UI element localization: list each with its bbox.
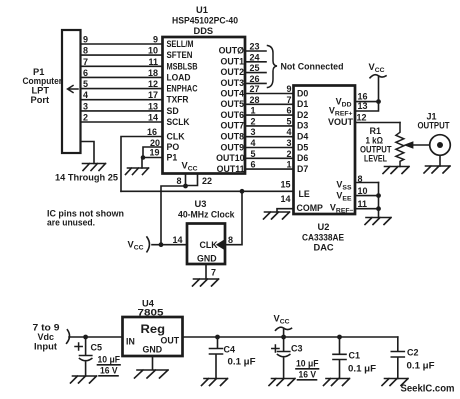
svg-text:12: 12 bbox=[148, 79, 158, 89]
svg-text:LPT: LPT bbox=[32, 86, 50, 96]
clock bus wire bbox=[121, 190, 294, 192]
svg-text:HSP45102PC-40: HSP45102PC-40 bbox=[172, 16, 238, 26]
svg-text:OUT7: OUT7 bbox=[221, 121, 245, 131]
svg-text:7 to 9: 7 to 9 bbox=[33, 323, 60, 333]
svg-text:6: 6 bbox=[83, 68, 88, 78]
svg-text:GND: GND bbox=[197, 254, 217, 264]
U3 pin names bbox=[197, 240, 218, 264]
svg-text:0.1 μF: 0.1 μF bbox=[228, 357, 257, 367]
svg-text:are unused.: are unused. bbox=[47, 218, 95, 228]
svg-text:Not Connected: Not Connected bbox=[281, 62, 344, 72]
wire P1 pin6 to U1 pin18 bbox=[81, 76, 163, 78]
svg-text:OUT2: OUT2 bbox=[221, 67, 245, 77]
svg-text:16: 16 bbox=[147, 127, 157, 137]
svg-text:11: 11 bbox=[358, 199, 368, 209]
connector P1 bbox=[62, 30, 81, 153]
wire U1 pin25 OUT2 nc bbox=[245, 72, 266, 74]
svg-text:5: 5 bbox=[83, 79, 88, 89]
svg-text:OUT8: OUT8 bbox=[221, 132, 245, 142]
ground C3 bbox=[269, 379, 295, 386]
svg-text:DDS: DDS bbox=[194, 26, 214, 36]
svg-text:GND: GND bbox=[143, 345, 163, 355]
U1 left pin names bbox=[167, 39, 199, 163]
svg-text:3: 3 bbox=[83, 101, 88, 111]
bracket not connected bbox=[268, 46, 278, 88]
wire U3 clock out riser bbox=[225, 191, 242, 244]
svg-text:OUT1: OUT1 bbox=[221, 56, 245, 66]
svg-text:OUT5: OUT5 bbox=[221, 99, 245, 109]
svg-text:27: 27 bbox=[250, 84, 260, 94]
connector J1 bbox=[430, 135, 451, 156]
wire VCC net U1 to U3 bbox=[161, 186, 186, 245]
wire VREF+ pin13 bbox=[355, 102, 379, 111]
ground U3 bbox=[193, 279, 219, 286]
note IC pins unused bbox=[47, 209, 124, 228]
ground C1 bbox=[324, 379, 350, 386]
svg-text:D2: D2 bbox=[297, 110, 308, 120]
svg-text:1: 1 bbox=[251, 106, 256, 116]
wire U1 pin8 stub bbox=[185, 174, 187, 187]
svg-text:7: 7 bbox=[286, 95, 291, 105]
svg-text:16 V: 16 V bbox=[299, 370, 317, 380]
svg-text:SCLK: SCLK bbox=[167, 117, 191, 127]
wire VSS pin8 bbox=[355, 182, 379, 184]
label U4 title bbox=[138, 299, 164, 318]
pin numbers U2 left 9-1 bbox=[286, 84, 291, 170]
svg-text:CA3338AE: CA3338AE bbox=[302, 233, 344, 243]
regulator U4 7805 bbox=[123, 317, 183, 356]
svg-text:13: 13 bbox=[358, 101, 368, 111]
svg-text:9: 9 bbox=[286, 84, 291, 94]
svg-text:26: 26 bbox=[250, 74, 260, 84]
ground P1 shell bbox=[83, 164, 106, 171]
svg-text:11: 11 bbox=[148, 57, 158, 67]
svg-text:2: 2 bbox=[286, 149, 291, 159]
svg-text:OUT6: OUT6 bbox=[221, 110, 245, 120]
svg-text:SD: SD bbox=[167, 106, 179, 116]
resistor R1 bbox=[396, 123, 404, 167]
DAC U2 CA3338AE bbox=[294, 86, 356, 215]
svg-text:R1: R1 bbox=[370, 126, 382, 136]
svg-text:U2: U2 bbox=[318, 222, 330, 232]
svg-text:14 Through 25: 14 Through 25 bbox=[55, 173, 118, 183]
svg-text:10: 10 bbox=[148, 46, 158, 56]
svg-text:D1: D1 bbox=[297, 99, 308, 109]
ground C4 bbox=[202, 379, 228, 386]
svg-text:OUT10: OUT10 bbox=[216, 153, 244, 163]
svg-text:OUT11: OUT11 bbox=[217, 164, 245, 174]
svg-text:28: 28 bbox=[250, 95, 260, 105]
power VCC tap at U3 bbox=[128, 237, 150, 252]
svg-text:U3: U3 bbox=[195, 199, 207, 209]
svg-text:OUT9: OUT9 bbox=[221, 142, 245, 152]
svg-text:14: 14 bbox=[280, 194, 290, 204]
svg-text:16 V: 16 V bbox=[100, 366, 118, 376]
svg-text:IN: IN bbox=[126, 337, 135, 347]
ground U4 bbox=[135, 370, 169, 378]
wire COMP to ground bbox=[277, 209, 294, 212]
svg-text:SFTEN: SFTEN bbox=[167, 50, 193, 60]
label C2 value bbox=[407, 348, 436, 371]
wire VCC to U3 pin14 bbox=[152, 244, 187, 246]
label J1 bbox=[418, 112, 450, 131]
junction pins 19-20 bbox=[141, 155, 146, 160]
svg-text:4: 4 bbox=[83, 90, 88, 100]
svg-text:LE: LE bbox=[299, 189, 310, 199]
svg-text:3: 3 bbox=[286, 138, 291, 148]
wire U1 pin26 OUT3 nc bbox=[245, 82, 266, 84]
capacitor C4 bbox=[210, 337, 223, 379]
svg-text:VOUT: VOUT bbox=[328, 117, 354, 127]
wire OUT10 to D6 bbox=[245, 157, 294, 159]
svg-text:OUTPUT: OUTPUT bbox=[418, 121, 450, 131]
underline C3 10uF bbox=[296, 368, 319, 370]
junction VCC at U3 bbox=[159, 242, 164, 247]
svg-text:22: 22 bbox=[202, 176, 212, 186]
IC U1 HSP45102PC-40 bbox=[163, 37, 246, 174]
svg-text:2: 2 bbox=[251, 116, 256, 126]
wire OUT7 to D3 bbox=[245, 125, 294, 127]
label U3 title bbox=[178, 199, 235, 220]
ground R1 bbox=[383, 167, 409, 174]
svg-text:8: 8 bbox=[176, 176, 181, 186]
label U2 title bbox=[302, 222, 344, 253]
wire P1 pin7 to U1 pin11 bbox=[81, 65, 163, 67]
junction VREF- bbox=[376, 206, 381, 211]
wire U2 supply riser to ground bbox=[378, 183, 380, 218]
wire VEE pin10 bbox=[355, 195, 379, 197]
wire U1 pin24 OUT1 nc bbox=[245, 61, 266, 63]
svg-text:3: 3 bbox=[251, 127, 256, 137]
wire J1 to ground bbox=[439, 155, 441, 166]
svg-text:Computer: Computer bbox=[23, 76, 63, 86]
svg-text:C1: C1 bbox=[349, 351, 361, 361]
U2 left pin names D0-D7 bbox=[297, 88, 324, 213]
svg-text:Vdc: Vdc bbox=[38, 332, 55, 342]
svg-text:OUT3: OUT3 bbox=[221, 78, 245, 88]
wire U1 pin23 OUT0 nc bbox=[245, 50, 266, 52]
svg-text:14: 14 bbox=[172, 235, 182, 245]
wire P1 pin4 to U1 pin17 bbox=[81, 99, 163, 101]
U2 right pin names bbox=[328, 97, 354, 215]
power input tap bbox=[67, 330, 70, 344]
wire VDD pin16 bbox=[355, 101, 379, 103]
svg-text:10 μF: 10 μF bbox=[98, 355, 121, 365]
pin numbers P1 side bbox=[83, 35, 88, 123]
svg-text:8: 8 bbox=[83, 46, 88, 56]
svg-text:0.1 μF: 0.1 μF bbox=[407, 361, 436, 371]
svg-text:9: 9 bbox=[83, 35, 88, 45]
junction C4 bbox=[215, 335, 220, 340]
svg-text:COMP: COMP bbox=[297, 203, 324, 213]
node P1 labels bbox=[23, 67, 63, 105]
wire OUT11 to D7 bbox=[245, 168, 294, 170]
svg-text:PO: PO bbox=[167, 142, 180, 152]
wire OUT5 to D1 bbox=[245, 103, 294, 105]
svg-text:10 μF: 10 μF bbox=[296, 359, 319, 369]
svg-text:D3: D3 bbox=[297, 121, 308, 131]
svg-text:TXFR: TXFR bbox=[167, 95, 190, 105]
underline 16V bbox=[99, 375, 118, 377]
pin numbers U1 right 27-6 bbox=[250, 84, 260, 170]
svg-text:17: 17 bbox=[148, 90, 158, 100]
svg-text:OUT4: OUT4 bbox=[221, 88, 245, 98]
underline C3 16V bbox=[298, 379, 317, 381]
svg-text:ENPHAC: ENPHAC bbox=[167, 84, 199, 94]
svg-text:C4: C4 bbox=[224, 345, 236, 355]
svg-text:7: 7 bbox=[83, 57, 88, 67]
capacitor C1 bbox=[333, 337, 346, 379]
svg-text:12: 12 bbox=[357, 113, 367, 123]
junction clock bus bbox=[240, 189, 245, 194]
svg-text:8: 8 bbox=[228, 235, 233, 245]
svg-text:23: 23 bbox=[250, 42, 260, 52]
wire OUT8 to D4 bbox=[245, 136, 294, 138]
svg-text:SELL/M: SELL/M bbox=[167, 39, 194, 49]
svg-text:6: 6 bbox=[251, 160, 256, 170]
svg-text:9: 9 bbox=[153, 35, 158, 45]
svg-text:5: 5 bbox=[286, 116, 291, 126]
wire U1 pin22 stub bbox=[186, 174, 198, 186]
svg-text:U1: U1 bbox=[196, 5, 208, 15]
label C3 value bbox=[291, 344, 319, 380]
label C4 value bbox=[224, 345, 257, 367]
svg-text:15: 15 bbox=[280, 180, 290, 190]
wire P1 pin3 to U1 pin13 bbox=[81, 110, 163, 112]
U3 clock output wedge bbox=[217, 240, 225, 250]
wire OUT4 to D0 bbox=[245, 93, 294, 95]
capacitor C2 bbox=[391, 337, 404, 379]
label U1 title bbox=[172, 5, 238, 36]
svg-text:D7: D7 bbox=[297, 164, 308, 174]
svg-text:13: 13 bbox=[148, 101, 158, 111]
svg-text:8: 8 bbox=[358, 174, 363, 184]
svg-text:D5: D5 bbox=[297, 142, 308, 152]
svg-text:6: 6 bbox=[286, 106, 291, 116]
underline 10uF bbox=[98, 364, 121, 366]
wire U1 pin19 P1 to ground bbox=[142, 158, 163, 169]
svg-text:D0: D0 bbox=[297, 88, 308, 98]
wire VOUT pin12 to R1 bbox=[355, 122, 400, 124]
svg-text:C5: C5 bbox=[91, 343, 103, 353]
svg-text:C3: C3 bbox=[291, 344, 303, 354]
svg-text:0.1 μF: 0.1 μF bbox=[348, 364, 377, 374]
wiper R1 to J1 bbox=[412, 144, 430, 146]
svg-text:OUTØ: OUTØ bbox=[219, 46, 245, 56]
wire P1 pin5 to U1 pin12 bbox=[81, 88, 163, 90]
wire VCC rail bbox=[183, 336, 398, 338]
capacitor C5 bbox=[75, 337, 92, 376]
capacitor C3 bbox=[272, 337, 290, 379]
svg-text:LOAD: LOAD bbox=[167, 72, 191, 82]
svg-text:CLK: CLK bbox=[167, 132, 186, 142]
svg-text:19: 19 bbox=[149, 148, 159, 158]
junction VCC pins 8-22 bbox=[183, 184, 188, 189]
junction VEE bbox=[376, 193, 381, 198]
svg-text:18: 18 bbox=[148, 68, 158, 78]
svg-text:4: 4 bbox=[251, 138, 256, 148]
svg-text:25: 25 bbox=[250, 63, 260, 73]
label R1 value bbox=[360, 126, 392, 164]
svg-text:CLK: CLK bbox=[200, 240, 219, 250]
junction VDD VCC bbox=[376, 99, 381, 104]
power VCC tap above U2 bbox=[369, 62, 387, 102]
ground pins 19-20 bbox=[126, 168, 149, 175]
wiper arrowhead bbox=[405, 142, 414, 148]
svg-text:5: 5 bbox=[251, 149, 256, 159]
svg-text:Reg: Reg bbox=[141, 324, 166, 336]
ground J1 bbox=[424, 166, 450, 173]
svg-text:24: 24 bbox=[250, 52, 260, 62]
label input 7 to 9 Vdc bbox=[33, 323, 60, 352]
svg-text:1: 1 bbox=[286, 160, 291, 170]
wire P1 pin9 to U1 pin9 bbox=[81, 43, 163, 45]
U4 pin names bbox=[126, 324, 180, 355]
svg-text:16: 16 bbox=[358, 92, 368, 102]
U1 right pin names OUT0-OUT11 bbox=[216, 46, 244, 174]
wire U1 pin16 CLK down to clock bus bbox=[121, 137, 163, 192]
wire OUT9 to D5 bbox=[245, 147, 294, 149]
svg-text:SeekIC.com: SeekIC.com bbox=[401, 384, 455, 395]
junction C3 bbox=[281, 335, 286, 340]
svg-text:40-MHz Clock: 40-MHz Clock bbox=[178, 210, 235, 220]
ground C5 bbox=[71, 376, 97, 383]
wire U4 GND to ground bbox=[152, 356, 154, 370]
svg-text:10: 10 bbox=[358, 186, 368, 196]
label C5 value bbox=[91, 343, 121, 376]
wire P1 pin2 to U1 pin14 bbox=[81, 121, 163, 123]
svg-text:7805: 7805 bbox=[138, 308, 164, 318]
power VCC tap above C3 bbox=[274, 314, 292, 338]
svg-text:2: 2 bbox=[83, 113, 88, 123]
svg-text:C2: C2 bbox=[407, 348, 419, 358]
ground C2 bbox=[382, 379, 408, 386]
wire input to U4 IN bbox=[69, 336, 123, 338]
wire VREF- pin11 bbox=[355, 208, 379, 210]
svg-text:7: 7 bbox=[211, 268, 216, 278]
wire OUT6 to D2 bbox=[245, 114, 294, 116]
label C1 value bbox=[348, 351, 377, 374]
wire U1 pin20 PO bbox=[143, 147, 163, 158]
svg-text:DAC: DAC bbox=[314, 243, 334, 253]
svg-text:D6: D6 bbox=[297, 153, 308, 163]
svg-text:Port: Port bbox=[31, 95, 50, 105]
oscillator U3 40-MHz clock bbox=[187, 224, 225, 265]
svg-text:P1: P1 bbox=[167, 153, 178, 163]
ground U2 supply bbox=[365, 218, 391, 225]
junction C5 bbox=[83, 335, 88, 340]
junction C1 bbox=[337, 335, 342, 340]
pin numbers U1 left side bbox=[147, 35, 160, 158]
svg-text:Input: Input bbox=[34, 342, 57, 352]
wire U3 pin7 stub bbox=[205, 264, 207, 279]
svg-text:D4: D4 bbox=[297, 132, 308, 142]
pin numbers 23-26 bbox=[250, 42, 260, 84]
svg-text:OUT: OUT bbox=[161, 336, 180, 346]
svg-text:LEVEL: LEVEL bbox=[364, 154, 387, 164]
wire P1 shell to ground bbox=[81, 142, 95, 164]
svg-text:4: 4 bbox=[286, 127, 291, 137]
svg-text:14: 14 bbox=[148, 113, 158, 123]
ground COMP bbox=[264, 212, 290, 219]
svg-text:MSBLSB: MSBLSB bbox=[167, 61, 198, 71]
wire P1 pin8 to U1 pin10 bbox=[81, 54, 163, 56]
